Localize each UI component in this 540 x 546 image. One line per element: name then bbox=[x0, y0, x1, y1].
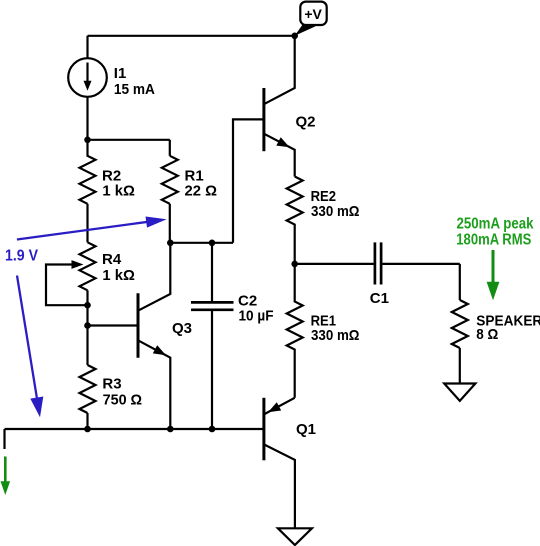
label R2 value bbox=[102, 167, 135, 199]
wire R4 bottom lead bbox=[86, 290, 88, 305]
wire speaker top lead bbox=[459, 264, 461, 300]
label R3 value bbox=[102, 376, 142, 409]
ground under speaker bbox=[444, 384, 475, 401]
node output RE2/RE1/C1 bbox=[291, 261, 298, 268]
node I1/R2/R1 bbox=[84, 137, 91, 144]
svg-text:1 kΩ: 1 kΩ bbox=[102, 183, 134, 200]
wire R3 top lead bbox=[86, 326, 88, 366]
node R1/Q3 collector bbox=[167, 240, 174, 247]
ground under Q1 bbox=[278, 528, 312, 545]
power symbol +V bbox=[295, 2, 327, 36]
annotation green current arrow bottom-left bbox=[1, 457, 11, 496]
node R4 wiper junction bbox=[84, 302, 91, 309]
transistor Q2 bbox=[264, 36, 295, 177]
wire R1 top lead bbox=[169, 140, 171, 156]
svg-text:C1: C1 bbox=[370, 290, 389, 307]
wire R1 bottom lead bbox=[169, 204, 171, 243]
wire R4 wiper loop bbox=[46, 265, 88, 306]
wire top rail bbox=[88, 35, 295, 37]
label I1 value bbox=[114, 65, 155, 98]
svg-text:Q3: Q3 bbox=[172, 320, 192, 337]
label SPEAKER value bbox=[476, 313, 540, 344]
wire output node row bbox=[295, 263, 374, 265]
speaker resistor bbox=[452, 300, 468, 348]
node C2 top bbox=[209, 240, 216, 247]
svg-text:22 Ω: 22 Ω bbox=[185, 183, 218, 200]
current source I1 bbox=[68, 58, 107, 97]
node +V junction bbox=[291, 33, 298, 40]
wire R2-R4 link bbox=[86, 204, 88, 243]
wire C1 to speaker bbox=[382, 263, 459, 265]
R4 wiper arrowhead bbox=[72, 260, 84, 269]
resistor RE2 bbox=[287, 177, 303, 264]
label R4 value bbox=[102, 251, 135, 284]
resistor R4 (rheostat) bbox=[80, 242, 96, 290]
node Q3 base tap bbox=[84, 322, 91, 329]
svg-text:Q1: Q1 bbox=[296, 421, 316, 438]
svg-text:10 µF: 10 µF bbox=[239, 308, 274, 325]
wire left stub bbox=[3, 429, 5, 449]
label RE2 value bbox=[311, 188, 360, 220]
svg-text:I1: I1 bbox=[114, 65, 127, 82]
svg-text:180mA RMS: 180mA RMS bbox=[456, 232, 531, 249]
wire I1 top lead bbox=[86, 36, 88, 58]
resistor R3 bbox=[80, 365, 96, 413]
resistor RE1 bbox=[287, 264, 303, 398]
capacitor C2 bbox=[191, 302, 234, 309]
resistor R1 bbox=[162, 156, 178, 204]
transistor Q3 bbox=[88, 243, 171, 429]
svg-text:1 kΩ: 1 kΩ bbox=[102, 267, 134, 284]
node R3 bottom rail bbox=[84, 426, 91, 433]
wire node row y243 bbox=[170, 242, 233, 244]
resistor R2 bbox=[80, 140, 96, 204]
annotation blue arrow to R1 bottom bbox=[17, 217, 167, 240]
svg-text:Q2: Q2 bbox=[296, 114, 316, 131]
svg-text:R3: R3 bbox=[102, 376, 121, 393]
svg-text:R4: R4 bbox=[102, 251, 122, 268]
wire I1 bottom lead bbox=[86, 97, 88, 140]
svg-text:330 mΩ: 330 mΩ bbox=[311, 327, 360, 344]
svg-text:1.9 V: 1.9 V bbox=[5, 248, 39, 265]
label R1 value bbox=[185, 167, 218, 199]
svg-text:+V: +V bbox=[304, 7, 322, 22]
wire R3 bottom lead bbox=[86, 413, 88, 429]
wire Q2 base drop bbox=[233, 119, 263, 242]
node C2 bottom rail bbox=[209, 426, 216, 433]
wire C2 bottom lead bbox=[211, 311, 213, 429]
svg-text:8 Ω: 8 Ω bbox=[476, 326, 498, 343]
svg-text:15 mA: 15 mA bbox=[114, 81, 155, 98]
label RE1 value bbox=[311, 313, 360, 345]
label C2 value bbox=[238, 293, 274, 325]
node Q3 emitter rail bbox=[167, 426, 174, 433]
svg-text:250mA peak: 250mA peak bbox=[457, 216, 534, 233]
capacitor C1 bbox=[375, 242, 381, 284]
wire speaker bottom lead bbox=[459, 348, 461, 384]
annotation blue arrow to bottom rail bbox=[17, 276, 43, 418]
wire R2-R1 top link bbox=[88, 139, 170, 141]
svg-text:330 mΩ: 330 mΩ bbox=[311, 203, 360, 220]
wire C2 top lead bbox=[211, 243, 213, 301]
annotation green current arrow at speaker bbox=[487, 250, 500, 300]
wire node link bbox=[86, 305, 88, 325]
annotation label speaker current bbox=[456, 216, 534, 249]
transistor Q1 bbox=[264, 398, 295, 529]
svg-text:750 Ω: 750 Ω bbox=[103, 391, 143, 408]
wire bottom feedback rail bbox=[5, 428, 263, 430]
